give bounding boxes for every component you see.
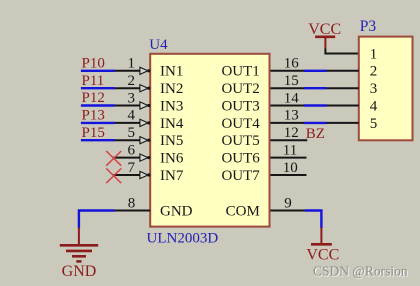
svg-text:10: 10 — [283, 160, 298, 176]
svg-text:5: 5 — [370, 116, 378, 132]
U4 pin 10 line — [270, 174, 307, 176]
wire GND net — [79, 211, 115, 229]
U4 pin 16 line — [270, 70, 305, 72]
svg-text:IN5: IN5 — [160, 133, 183, 149]
wire net P10 — [81, 70, 115, 72]
U4 pin 6 line — [113, 154, 150, 161]
svg-text:3: 3 — [128, 90, 136, 106]
svg-text:VCC: VCC — [308, 21, 341, 38]
power symbol VCC (bottom) — [306, 228, 339, 264]
wire net pin14 — [304, 104, 327, 106]
wire COM to VCC — [305, 211, 321, 229]
svg-text:8: 8 — [128, 195, 136, 211]
svg-text:OUT1: OUT1 — [221, 64, 259, 80]
wire net P12 — [81, 104, 115, 106]
svg-text:IN3: IN3 — [160, 98, 183, 114]
svg-text:GND: GND — [62, 263, 97, 280]
svg-text:P15: P15 — [82, 125, 105, 141]
U4 pin 15 line — [270, 87, 305, 89]
svg-text:U4: U4 — [149, 37, 168, 53]
svg-text:P10: P10 — [82, 56, 105, 72]
svg-text:14: 14 — [284, 90, 300, 106]
U4 pin 4 line — [113, 119, 150, 126]
svg-text:15: 15 — [284, 73, 299, 89]
svg-text:1: 1 — [370, 46, 378, 62]
svg-text:9: 9 — [284, 195, 292, 211]
svg-text:6: 6 — [128, 142, 136, 158]
no-connect X pin 6 — [106, 151, 121, 166]
svg-text:12: 12 — [284, 125, 299, 141]
svg-text:IN1: IN1 — [160, 64, 183, 80]
svg-text:P13: P13 — [82, 108, 105, 124]
svg-text:IN7: IN7 — [160, 168, 184, 184]
svg-text:CSDN @Rorsion: CSDN @Rorsion — [313, 264, 408, 279]
svg-text:4: 4 — [370, 98, 378, 114]
U4 pin 14 line — [270, 105, 305, 107]
svg-text:OUT2: OUT2 — [221, 81, 259, 97]
svg-text:P3: P3 — [360, 18, 377, 35]
wire net pin16 — [304, 70, 327, 72]
svg-text:3: 3 — [370, 81, 378, 97]
connector P3 — [359, 18, 413, 140]
U4 pin 1 line — [113, 67, 150, 74]
wire net pin13 — [304, 122, 327, 124]
U4 pin 11 line — [270, 157, 307, 159]
svg-text:OUT4: OUT4 — [221, 116, 260, 132]
svg-text:2: 2 — [128, 73, 136, 89]
svg-text:OUT3: OUT3 — [221, 98, 259, 114]
svg-text:OUT7: OUT7 — [221, 168, 260, 184]
svg-text:P12: P12 — [82, 90, 105, 106]
svg-text:13: 13 — [284, 108, 299, 124]
wire net P11 — [81, 87, 115, 89]
svg-text:GND: GND — [160, 203, 193, 219]
svg-text:16: 16 — [284, 56, 300, 72]
U4 pin 9 line (COM) — [270, 210, 306, 212]
svg-text:1: 1 — [128, 56, 136, 72]
power symbol VCC (top) — [308, 21, 341, 49]
svg-text:OUT5: OUT5 — [221, 133, 259, 149]
IC U4 body — [150, 54, 269, 227]
U4 pin 2 line — [113, 85, 150, 92]
svg-text:OUT6: OUT6 — [221, 151, 260, 167]
svg-text:7: 7 — [128, 160, 136, 176]
P3 pin lines (pins 2-5) — [326, 71, 359, 123]
U4 pin 8 line — [113, 210, 150, 212]
ground symbol — [60, 228, 98, 262]
svg-text:IN4: IN4 — [160, 116, 184, 132]
svg-text:VCC: VCC — [306, 246, 339, 263]
wire net pin15 — [304, 87, 327, 89]
wire net P15 — [81, 139, 115, 141]
U4 pin 7 line — [113, 171, 150, 178]
svg-text:2: 2 — [370, 64, 378, 80]
svg-text:11: 11 — [283, 142, 297, 158]
svg-text:5: 5 — [128, 125, 136, 141]
svg-text:ULN2003D: ULN2003D — [147, 231, 219, 247]
wire net P13 — [81, 122, 115, 124]
U4 pin 3 line — [113, 102, 150, 109]
svg-text:COM: COM — [226, 203, 260, 219]
U4 pin 5 line — [113, 137, 150, 144]
svg-text:IN2: IN2 — [160, 81, 183, 97]
svg-text:BZ: BZ — [306, 126, 325, 142]
wire VCC to P3 pin 1 — [324, 49, 358, 54]
svg-text:P11: P11 — [82, 73, 105, 89]
svg-text:IN6: IN6 — [160, 151, 184, 167]
svg-text:4: 4 — [128, 108, 136, 124]
no-connect X pin 7 — [106, 168, 121, 183]
U4 pin 12 line (net BZ) — [270, 139, 307, 141]
U4 pin 13 line — [270, 122, 305, 124]
